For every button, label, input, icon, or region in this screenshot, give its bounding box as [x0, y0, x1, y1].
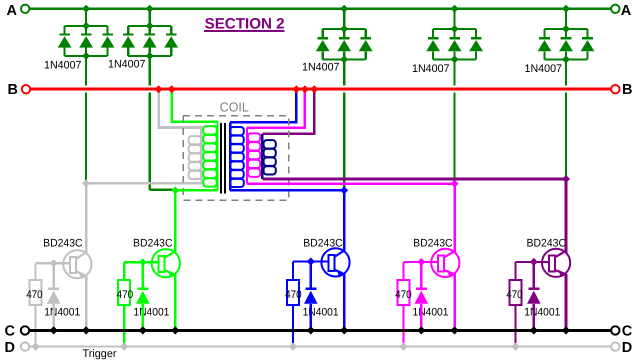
wire: collector drop into Q2 — [174, 190, 177, 262]
svg-text:BD243C: BD243C — [303, 238, 343, 250]
wire: vertical drop below array D4 — [454, 59, 456, 183]
wire: base of Q5 — [516, 261, 550, 263]
svg-text:C: C — [5, 324, 16, 340]
junction node on bus A at array D1 — [82, 5, 90, 13]
terminal C right — [611, 326, 619, 334]
title underline — [204, 30, 285, 32]
junction node at array D1 top rail — [82, 22, 90, 30]
junction node at array D4 top rail — [451, 25, 459, 33]
svg-text:1N4007: 1N4007 — [412, 63, 450, 75]
wire: emitter of Q4 down to bus C — [453, 274, 456, 331]
wire: magenta tap from B to winding W4 top — [247, 89, 305, 128]
junction node blue at (344,190) — [340, 186, 348, 194]
junction node on bus D at R4 — [399, 343, 407, 351]
junction node on bus C at Q3 emitter (over bus) — [340, 326, 348, 334]
bus wire A (top supply rail) — [30, 8, 612, 10]
bus wire C (black return rail) — [29, 329, 611, 332]
diode D3 1N4001 (base-emitter clamp) — [304, 288, 318, 304]
wire: elbow from array D2 drop to Q2 collector node — [150, 189, 176, 191]
wire: resistor R3 down to Trigger bus D — [292, 305, 294, 347]
svg-text:BD243C: BD243C — [527, 238, 567, 250]
junction node on bus C at Q5 emitter (over bus) — [562, 326, 570, 334]
junction node on bus C at D4 — [417, 326, 425, 334]
wire: magenta return from W4 bottom to Q4 collector drop — [247, 182, 455, 185]
junction node at array D3 bottom rail — [340, 55, 348, 63]
junction node at array D3 top rail — [340, 25, 348, 33]
svg-text:470: 470 — [506, 289, 523, 301]
wire: diode D5 anode down to bus C — [532, 304, 535, 331]
wire: emitter of Q2 down to bus C — [174, 274, 177, 330]
terminal C left — [21, 326, 29, 334]
svg-text:D: D — [622, 340, 632, 356]
junction node on bus A at array D3 — [340, 5, 348, 13]
junction node on bus C at D5 (over bus) — [530, 326, 538, 334]
wire: feed from bus A into array D5 — [565, 9, 567, 29]
wire: feed from bus A into array D2 — [149, 9, 151, 26]
junction node on bus D at R3 — [289, 343, 297, 351]
junction node on bus C at Q5 emitter — [562, 326, 570, 334]
diode D2 1N4001 (base-emitter clamp) — [136, 288, 150, 304]
junction node at array D5 bottom rail — [562, 55, 570, 63]
junction node lime at (175,190) — [171, 186, 179, 194]
svg-text:B: B — [622, 82, 632, 98]
transformer winding W5 (navy secondary) — [262, 134, 276, 179]
junction node on bus B at x=296.3 — [292, 85, 300, 93]
svg-text:470: 470 — [117, 289, 134, 301]
junction node on bus C at Q4 emitter (over bus) — [451, 326, 459, 334]
svg-text:1N4007: 1N4007 — [302, 61, 340, 73]
terminal A right — [611, 5, 619, 13]
resistor R5 470 (base drive from Trigger) — [510, 280, 522, 305]
wire: diode D1 anode down to bus C — [52, 304, 55, 331]
transformer enclosure (dashed COIL box) — [183, 116, 288, 200]
resistor R2 470 (base drive from Trigger) — [118, 280, 130, 305]
bus wire D (Trigger rail) — [29, 346, 611, 348]
wire: diode D4 anode down to bus C — [420, 304, 423, 331]
junction node on bus D at R1 — [32, 343, 40, 351]
wire: resistor R4 down to Trigger bus D — [402, 305, 404, 347]
resistor R1 470 (base drive from Trigger) — [30, 280, 42, 305]
junction node at array D4 bottom rail — [451, 55, 459, 63]
wire: base node down to diode D2 1N4001 — [142, 262, 145, 288]
diode D5 1N4001 (base-emitter clamp) — [527, 288, 541, 304]
junction node on bus B at x=158.6 — [155, 85, 163, 93]
junction node on bus B at x=171.7 — [168, 85, 176, 93]
wire: resistor R5 down to Trigger bus D — [514, 305, 516, 347]
junction node at array D2 bottom rail — [146, 52, 154, 60]
transistor Q5 BD243C — [542, 247, 570, 277]
junction node on bus C at Q4 emitter — [451, 326, 459, 334]
transistor Q4 BD243C — [431, 247, 459, 277]
wire: collector drop into Q3 — [343, 190, 346, 261]
wire: emitter of Q1 down to bus C — [85, 275, 88, 330]
junction node on bus A at array D4 — [451, 5, 459, 13]
junction node at Q2 base — [139, 258, 147, 266]
terminal D right — [611, 342, 619, 350]
wire: vertical drop below array D3 — [343, 59, 345, 190]
junction node on bus D at R2 (over bus) — [120, 343, 128, 351]
transistor Q3 BD243C — [321, 246, 349, 276]
junction node magenta at (455,184) — [451, 180, 459, 188]
wire: base node down to resistor of Q5 — [514, 262, 516, 280]
resistor R3 470 (base drive from Trigger) — [287, 280, 299, 305]
svg-text:1N4007: 1N4007 — [44, 60, 82, 72]
wire: base node down to resistor of Q3 — [292, 262, 294, 281]
svg-text:BD243C: BD243C — [43, 238, 83, 250]
svg-text:470: 470 — [285, 289, 302, 301]
junction node at Q5 base — [530, 258, 538, 266]
wire: resistor R2 down to Trigger bus D — [123, 305, 125, 347]
wire: vertical drop below array D1 — [85, 56, 87, 183]
transistor Q1 BD243C — [63, 248, 91, 278]
terminal B right — [611, 85, 619, 93]
junction node on bus C at D5 — [530, 326, 538, 334]
transformer core laminations — [220, 123, 222, 193]
wire: base node down to diode D1 1N4001 — [52, 263, 55, 288]
diode array D2 (3x 1N4007 in parallel) — [121, 26, 178, 56]
junction node at array D1 bottom rail — [82, 52, 90, 60]
transformer winding W2 (lime primary) — [203, 122, 217, 191]
wire: feed from bus A into array D3 — [343, 9, 345, 29]
svg-text:470: 470 — [395, 289, 412, 301]
junction node on bus C at D3 (over bus) — [307, 326, 315, 334]
junction node on bus C at D3 — [307, 326, 315, 334]
svg-text:B: B — [8, 82, 18, 98]
junction node on bus B at x=314.3 — [310, 85, 318, 93]
wire: silver tap from B to winding W1 top — [159, 89, 202, 136]
svg-text:A: A — [621, 3, 632, 19]
wire: base node down to resistor of Q2 — [123, 262, 125, 280]
wire: base node down to diode D5 1N4001 — [532, 262, 535, 289]
wire: blue return from W3 bottom to Q3 collector drop — [230, 189, 344, 192]
junction node on bus D at R3 (over bus) — [289, 343, 297, 351]
svg-text:470: 470 — [26, 289, 43, 301]
junction node on bus D at R5 — [512, 343, 520, 351]
svg-text:Trigger: Trigger — [83, 348, 117, 360]
wire: diode D3 anode down to bus C — [309, 304, 312, 331]
diode D1 1N4001 (base-emitter clamp) — [47, 288, 61, 304]
svg-text:1N4007: 1N4007 — [525, 63, 563, 75]
diode array D4 (3x 1N4007 in parallel) — [426, 29, 483, 60]
junction node on bus C at D2 — [139, 326, 147, 334]
transformer winding W1 (silver primary) — [189, 136, 202, 183]
junction node on bus A at array D5 — [562, 5, 570, 13]
junction node silver at (86,183) — [82, 179, 90, 187]
diode array D1 (3x 1N4007 in parallel) — [58, 26, 115, 56]
junction node on bus C at Q1 emitter — [82, 326, 90, 334]
wire: resistor R1 down to Trigger bus D — [34, 305, 36, 347]
junction node on bus C at D1 (over bus) — [50, 326, 58, 334]
transistor Q2 BD243C — [152, 247, 180, 277]
wire: lime return from W2 bottom to Q2 collector node — [175, 189, 217, 192]
svg-text:BD243C: BD243C — [413, 238, 453, 250]
wire: base node down to resistor of Q4 — [402, 262, 404, 280]
svg-text:COIL: COIL — [220, 99, 249, 114]
resistor R4 470 (base drive from Trigger) — [397, 280, 409, 305]
wire: collector drop into Q1 — [85, 183, 88, 263]
junction node on bus C at D1 — [50, 326, 58, 334]
wire: base of Q2 — [124, 261, 159, 263]
wire: emitter of Q3 down to bus C — [343, 273, 346, 330]
bus wire B (red rail) — [30, 88, 611, 91]
wire: base node down to diode D4 1N4001 — [420, 262, 423, 289]
wire: purple return from W5 bottom to Q5 collector drop — [262, 178, 566, 181]
svg-text:C: C — [622, 324, 633, 340]
svg-text:1N4001: 1N4001 — [44, 306, 80, 318]
svg-text:BD243C: BD243C — [133, 238, 173, 250]
junction node on bus C at Q2 emitter — [171, 326, 179, 334]
wire: collector drop into Q5 — [565, 179, 568, 262]
junction node on bus D at R4 (over bus) — [399, 343, 407, 351]
svg-text:1N4001: 1N4001 — [524, 306, 560, 318]
svg-text:1N4001: 1N4001 — [413, 306, 449, 318]
wire: vertical drop below array D2 — [149, 56, 151, 190]
terminal D left — [21, 342, 29, 350]
transformer winding W4 (magenta secondary) — [247, 128, 260, 184]
wire: base of Q4 — [403, 261, 439, 263]
junction node at Q4 base — [417, 258, 425, 266]
junction node at array D2 top rail — [146, 22, 154, 30]
junction node on bus A at array D2 — [146, 5, 154, 13]
svg-text:SECTION 2: SECTION 2 — [205, 16, 285, 33]
wire: base node down to diode D3 1N4001 — [309, 262, 312, 289]
wire: collector drop into Q4 — [453, 184, 456, 262]
junction node on bus C at Q3 emitter — [340, 326, 348, 334]
svg-text:D: D — [5, 340, 15, 356]
junction node purple at (566,179) — [562, 175, 570, 183]
wire: feed from bus A into array D4 — [454, 9, 456, 29]
junction node on bus C at Q2 emitter (over bus) — [171, 326, 179, 334]
terminal A left — [21, 5, 29, 13]
wire: blue tap from B to winding W3 top — [230, 89, 296, 122]
junction node at Q3 base — [307, 258, 315, 266]
diode D4 1N4001 (base-emitter clamp) — [415, 288, 429, 304]
wire: vertical drop below array D5 — [565, 59, 567, 179]
wire: silver return from W1 bottom to node at x=86 — [86, 182, 201, 185]
junction node at Q1 base — [50, 259, 58, 267]
junction node on bus D at R1 (over bus) — [32, 343, 40, 351]
wire: base of Q1 — [36, 262, 72, 264]
wire: base node down to resistor of Q1 — [34, 263, 36, 280]
wire: feed from bus A into array D1 — [85, 9, 87, 26]
wire: purple tap from B to winding W5 top — [262, 89, 314, 134]
white casing gap where verticals cross bus B — [31, 86, 610, 93]
wire: diode D2 anode down to bus C — [142, 304, 145, 331]
svg-text:1N4001: 1N4001 — [133, 306, 169, 318]
junction node on bus B at x=304.9 — [301, 85, 309, 93]
wire: lime tap from B to winding W2 top — [172, 89, 218, 121]
junction node on bus C at Q1 emitter (over bus) — [82, 326, 90, 334]
junction node on bus D at R2 — [120, 343, 128, 351]
svg-text:1N4007: 1N4007 — [108, 58, 146, 70]
diode array D5 (3x 1N4007 in parallel) — [538, 29, 595, 60]
junction node at array D5 top rail — [562, 25, 570, 33]
diode array D3 (3x 1N4007 in parallel) — [316, 29, 373, 60]
wire: base of Q3 — [293, 260, 329, 262]
junction node on bus D at R5 (over bus) — [512, 343, 520, 351]
wire: emitter of Q5 down to bus C — [565, 274, 568, 331]
terminal B left — [22, 85, 30, 93]
junction node on bus C at D2 (over bus) — [139, 326, 147, 334]
svg-text:A: A — [7, 3, 18, 19]
junction node on bus C at D4 (over bus) — [417, 326, 425, 334]
transformer winding W3 (blue secondary) — [230, 122, 244, 190]
svg-text:1N4001: 1N4001 — [303, 306, 339, 318]
